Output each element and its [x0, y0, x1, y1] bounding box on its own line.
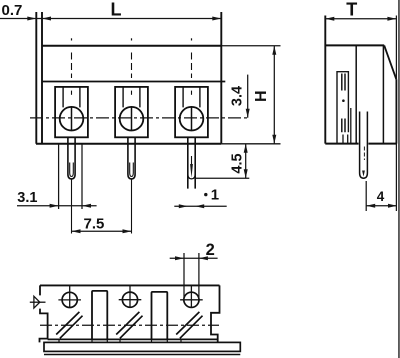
bottom view top edge — [40, 284, 220, 286]
svg-text:H: H — [253, 90, 270, 102]
center dot 3 — [191, 38, 193, 40]
arrow L right — [212, 17, 221, 21]
cavity dot — [342, 99, 345, 102]
svg-text:1: 1 — [211, 186, 219, 203]
arrow 4.5 bottom — [244, 169, 248, 178]
pin 3 tip arc — [188, 174, 195, 179]
svg-text:T: T — [346, 0, 357, 19]
tower T2 — [115, 87, 148, 137]
screw axis center line (dash-dot) — [30, 117, 248, 119]
slot 2 — [152, 292, 168, 340]
hatch group 3 — [176, 312, 202, 338]
dim line 7.5 — [72, 230, 132, 232]
terminal unit 3 — [175, 38, 208, 188]
dim line 4 — [366, 205, 397, 207]
T2 inner walls — [123, 87, 140, 108]
3.1 extension lines — [59, 144, 82, 209]
side right extension line (T and 4) — [395, 16, 397, 212]
section arrow line — [30, 301, 46, 303]
hole 1 cross — [58, 285, 81, 308]
svg-text:3.4: 3.4 — [230, 86, 246, 106]
arrow H bottom — [272, 135, 276, 144]
bottom view bottom edge — [48, 338, 218, 340]
dim line 3.1 — [17, 205, 97, 207]
svg-text:0.7: 0.7 — [2, 2, 23, 19]
side bottom edge — [325, 143, 397, 145]
dim line 4.5 — [245, 144, 247, 179]
svg-text:4.5: 4.5 — [230, 153, 246, 173]
hole 2 cross — [119, 285, 142, 307]
center mark dash 1 — [71, 91, 73, 95]
section arrow triangle — [34, 296, 40, 308]
body top edge — [42, 45, 221, 47]
arrow 3.4 bottom — [246, 109, 250, 118]
arrow 4 right — [388, 204, 397, 208]
pin 3 side lines — [188, 137, 195, 188]
dim 2 extension lines — [184, 253, 199, 298]
left wall outer line — [35, 12, 37, 144]
body bottom edge — [36, 143, 221, 145]
terminal unit 2 — [115, 38, 148, 233]
center mark dash 3 — [191, 91, 193, 95]
upper dashed center line 1 — [71, 53, 73, 79]
dim line 1 (pin width) — [174, 205, 226, 207]
arrow 0.7 right — [42, 17, 51, 21]
side inner wall line — [355, 45, 357, 143]
svg-text:3.1: 3.1 — [17, 190, 37, 206]
svg-text:7.5: 7.5 — [84, 216, 105, 233]
bottom view center line (dash-dot) — [40, 324, 219, 326]
screw slot 3 — [191, 107, 193, 131]
upper dashed center line 3 — [191, 53, 193, 79]
pin 1 — [68, 137, 75, 179]
pin 1 tip inner mark — [70, 163, 74, 177]
base bar — [44, 342, 240, 351]
arrow T right — [387, 17, 396, 21]
bottom view right profile — [211, 285, 220, 342]
T1 inner walls — [63, 87, 80, 108]
hatch group 2 — [116, 312, 142, 338]
side chamfer — [384, 45, 396, 79]
screw slot 2 — [131, 107, 133, 131]
dim line H — [273, 46, 275, 144]
screw head 2 — [120, 107, 144, 131]
pin 2 center extension line — [131, 180, 133, 234]
side back inner line — [382, 45, 384, 143]
pin 3 tip arrow tail — [191, 156, 193, 165]
center dot 2 — [131, 38, 133, 40]
cavity screw upper lines — [342, 74, 345, 91]
upper dashed center line 2 — [131, 53, 133, 79]
pin 1 center extension line — [71, 180, 73, 234]
side pin tip mark — [362, 171, 365, 177]
bottom view left profile — [40, 285, 48, 342]
dim line 0.7 / L — [0, 18, 221, 20]
terminal unit 1 — [55, 38, 88, 233]
arrow 1 right — [195, 204, 204, 208]
label dot 1 — [204, 193, 207, 196]
hole 2 — [122, 292, 137, 307]
arrow 4 left — [366, 204, 375, 208]
cavity outline — [337, 72, 348, 144]
arrow 2 right — [199, 256, 208, 260]
center dot 1 — [71, 38, 73, 40]
screw slot 1 — [71, 107, 73, 131]
hole 1 — [62, 292, 77, 307]
svg-text:2: 2 — [206, 241, 215, 259]
svg-text:4: 4 — [377, 189, 385, 204]
hole 3 cross — [180, 285, 203, 307]
left wall inner line — [41, 12, 43, 144]
base bar lower line — [44, 354, 240, 356]
scan border band right edge — [398, 0, 400, 358]
screw head 1 — [60, 107, 84, 131]
cavity bottom stubs — [343, 135, 348, 144]
slot stubs — [59, 339, 181, 342]
arrow 3.1 right — [82, 204, 91, 208]
pin 3 tip arrow — [190, 164, 193, 178]
arrow 1 left — [179, 204, 188, 208]
side pin center extension line — [365, 181, 367, 211]
hatch group 1 — [56, 312, 82, 338]
pin 2 — [128, 137, 135, 179]
arrow 3.1 left — [50, 204, 59, 208]
arrow 4.5 top — [244, 144, 248, 153]
internal horizontal line — [42, 81, 225, 83]
side left edge — [324, 16, 326, 144]
top edge extension for H — [221, 45, 280, 47]
center mark dash 2 — [131, 91, 133, 95]
arrow 7.5 right — [123, 229, 132, 233]
side pin — [360, 112, 368, 179]
svg-text:L: L — [111, 0, 122, 19]
tower T1 — [55, 87, 88, 137]
arrow 7.5 left — [72, 229, 81, 233]
side pin hidden inner line — [363, 147, 365, 161]
side right edge — [395, 80, 397, 144]
dim line 3.4 — [247, 75, 249, 118]
side top edge — [325, 44, 384, 46]
tower T3 — [175, 87, 208, 137]
T3 inner walls — [183, 87, 200, 108]
screw head 3 — [180, 107, 204, 131]
dim line 2 — [170, 257, 218, 259]
slot 1 — [92, 291, 107, 340]
dim line T — [325, 18, 396, 20]
arrow 2 left — [175, 256, 184, 260]
pin 2 tip inner mark — [130, 163, 134, 177]
pin end extension line — [196, 177, 249, 179]
arrow H top — [272, 46, 276, 55]
pocket wall line — [350, 108, 352, 144]
bottom edge extension right — [221, 143, 280, 145]
arrow T left — [325, 17, 334, 21]
body right edge — [220, 12, 222, 144]
hole 3 — [184, 292, 199, 307]
cavity screw lower lines — [342, 119, 345, 133]
arrow 0.7 left — [27, 17, 36, 21]
